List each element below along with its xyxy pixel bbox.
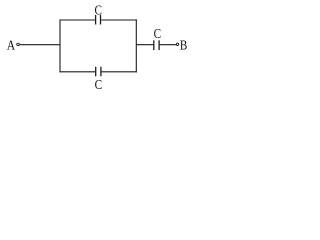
terminal B xyxy=(176,43,179,46)
capacitor C (top) xyxy=(96,15,101,25)
capacitor C (series) xyxy=(154,40,159,50)
capacitor C (bottom) xyxy=(96,67,101,77)
wire top-left segment xyxy=(60,19,96,21)
svg-text:C: C xyxy=(154,27,162,42)
svg-text:C: C xyxy=(95,3,103,18)
wire top-right segment xyxy=(101,19,137,21)
wire right vertical xyxy=(135,19,137,72)
wire bottom-left segment xyxy=(60,71,96,73)
svg-text:A: A xyxy=(7,39,16,54)
svg-text:B: B xyxy=(180,39,187,54)
terminal A xyxy=(17,43,20,46)
wire series capacitor to B xyxy=(160,44,177,46)
svg-text:C: C xyxy=(95,78,103,93)
wire A to left node xyxy=(20,44,61,46)
wire right node to series capacitor xyxy=(136,44,153,46)
wire left vertical xyxy=(59,19,61,72)
wire bottom-right segment xyxy=(102,71,137,73)
